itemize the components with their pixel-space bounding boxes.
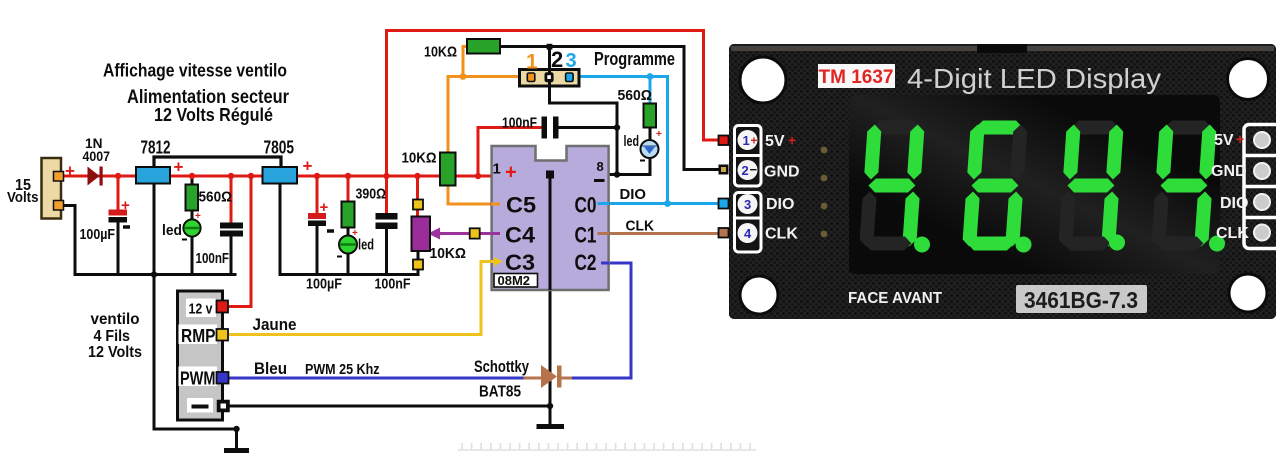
svg-text:100nF: 100nF <box>375 276 411 293</box>
svg-text:+: + <box>174 158 184 177</box>
wire: IC internal 0V vertical (over IC body) <box>549 175 552 290</box>
right silk label 5V+ <box>1214 131 1244 149</box>
wire: red stub to 100nF cap 1 <box>230 176 233 223</box>
svg-text:FACE AVANT: FACE AVANT <box>848 290 942 307</box>
wire: led 3 cathode down <box>649 157 652 175</box>
wire: 7812 ground pin down to bottom ground run <box>154 184 237 429</box>
svg-text:Jaune: Jaune <box>253 316 297 334</box>
svg-text:led: led <box>624 134 640 150</box>
svg-text:560Ω: 560Ω <box>199 190 233 206</box>
svg-text:TM 1637: TM 1637 <box>819 67 894 88</box>
wire: red stub to 100uF cap 1 <box>117 176 120 211</box>
led LED2 green <box>337 228 358 257</box>
node: cyan DIO junction <box>664 200 671 207</box>
regulator U1 7812 <box>136 167 170 184</box>
capacitor C3 100uF <box>308 213 334 231</box>
IC U3 PICAXE 08M2 <box>492 146 609 290</box>
wire: bridge over 7812 and 7805 tops <box>154 157 281 167</box>
svg-text:Schottky: Schottky <box>474 358 530 376</box>
wire: red feed to fan 12v pin <box>229 176 251 307</box>
ruler at bottom <box>458 443 756 450</box>
wire: 560R resistor 2 to led 3 <box>649 127 652 141</box>
display sheen <box>0 0 1 1</box>
diode D2 schottky BAT85 <box>541 365 562 388</box>
wire: cyan stub from C0 <box>598 202 610 205</box>
wire: 7805 ground pin to ground rail 2 <box>280 184 418 275</box>
node: cap3 tee <box>614 124 620 130</box>
svg-text:DIO: DIO <box>620 186 647 203</box>
wire: brown schottky left stub <box>525 377 541 380</box>
svg-text:390Ω: 390Ω <box>356 187 387 203</box>
text layer <box>7 44 675 401</box>
svg-text:10KΩ: 10KΩ <box>430 245 467 262</box>
svg-text:1: 1 <box>743 133 750 148</box>
right connector frame <box>1244 125 1280 249</box>
wire: 100uF cap 2 to ground rail 2 <box>316 226 319 275</box>
svg-text:7812: 7812 <box>141 138 171 158</box>
wire: header pin2 down to 0V node <box>550 85 618 175</box>
svg-text:+: + <box>65 162 75 181</box>
svg-text:1: 1 <box>493 161 501 178</box>
svg-text:4-Digit LED Display: 4-Digit LED Display <box>907 63 1161 94</box>
svg-text:−: − <box>750 162 758 177</box>
wire: blue PWM row from fan to schottky <box>229 377 525 380</box>
wire: red top line to display 5V pin <box>387 31 719 141</box>
decimal point 1 <box>914 237 930 253</box>
led LED1 green <box>182 211 201 240</box>
left connector pin 3 circle <box>738 194 758 214</box>
left connector pin 1 circle <box>738 130 758 150</box>
svg-text:5V: 5V <box>1214 132 1234 149</box>
decimal point 4 <box>1209 236 1225 252</box>
wire: 560R resistor 1 to led 1 <box>191 210 194 221</box>
left connector pin 2 circle <box>738 160 758 180</box>
wire: blue schottky to IC C2 <box>574 263 632 378</box>
svg-text:C3: C3 <box>505 250 535 275</box>
wire: orange stub into C5 <box>491 203 500 206</box>
mounting hole top-right <box>1228 59 1269 100</box>
display bezel <box>849 95 1220 274</box>
svg-text:4 Fils: 4 Fils <box>94 328 131 345</box>
fan pad minus black <box>218 401 230 412</box>
svg-text:+: + <box>656 129 662 140</box>
svg-text:led: led <box>358 237 374 254</box>
7-segment digit 4 : "4" <box>1151 121 1217 251</box>
capacitor C5 100nF <box>542 117 559 139</box>
fan pad 12v red <box>217 301 229 313</box>
led LED3 blue <box>640 129 662 161</box>
decimal point 2 <box>1016 237 1032 253</box>
wire: red branch to 100nF cap 3 <box>478 128 542 177</box>
IC 0V square node <box>546 171 554 179</box>
node: 7812 gnd on rail <box>151 271 157 277</box>
pad on C4 wiper wire <box>470 228 480 238</box>
ground symbol 2 <box>539 424 562 429</box>
svg-text:4007: 4007 <box>83 149 111 164</box>
resistor R5 560R <box>644 104 657 128</box>
svg-text:12 Volts Régulé: 12 Volts Régulé <box>154 104 273 125</box>
wire: red vertical top feed and 100nF cap 2 stub <box>385 31 388 214</box>
programming header J1 <box>520 70 580 87</box>
svg-text:2: 2 <box>551 47 563 72</box>
capacitor C2 100nF <box>220 223 243 237</box>
regulator U2 7805 <box>263 167 298 184</box>
svg-text:ventilo: ventilo <box>91 311 140 328</box>
purple arrowhead at potentiometer <box>428 228 440 240</box>
svg-text:100µF: 100µF <box>80 226 116 243</box>
svg-text:+: + <box>505 162 517 184</box>
svg-text:12 Volts: 12 Volts <box>88 344 142 361</box>
IC minus mark <box>594 179 605 182</box>
7-segment digit 1 : "4" <box>859 121 925 251</box>
wire: 390R resistor to led 2 <box>347 227 350 237</box>
wire: led 2 cathode to ground rail 2 <box>347 252 350 275</box>
wire: red stub to potentiometer <box>416 176 419 217</box>
svg-text:led: led <box>162 222 182 239</box>
node: cyan 560R tap <box>647 73 654 80</box>
svg-text:3: 3 <box>744 197 751 212</box>
display pad 5V red <box>719 136 729 146</box>
wire: cyan header pin3 to DIO net <box>573 77 668 204</box>
node: orange junction <box>460 73 467 80</box>
wire: yellow arrow into C3 (over IC edge) <box>481 257 503 266</box>
resistor R3 10K vertical <box>440 153 456 186</box>
right connector hole circles <box>1254 132 1270 241</box>
fan pad RMP yellow <box>217 329 229 341</box>
svg-text:CLK: CLK <box>1216 225 1249 242</box>
7-segment digit 2 : "6" <box>962 121 1028 251</box>
svg-text:4: 4 <box>744 226 752 241</box>
wire: red stub to 100uF cap 2 <box>316 176 319 214</box>
wire: +V rail 15V to IC pin1 <box>64 175 491 178</box>
wire: 100uF cap 1 to ground rail <box>117 221 120 275</box>
svg-text:CLK: CLK <box>626 218 655 235</box>
svg-text:GND: GND <box>764 164 800 181</box>
svg-text:3: 3 <box>566 50 577 72</box>
node: bottom ground junction <box>233 426 239 432</box>
svg-text:BAT85: BAT85 <box>479 384 521 401</box>
svg-text:Affichage vitesse ventilo: Affichage vitesse ventilo <box>103 60 287 81</box>
svg-text:RMP: RMP <box>181 325 216 346</box>
svg-text:560Ω: 560Ω <box>618 88 653 104</box>
mounting hole bottom-left <box>740 276 778 314</box>
node: pin8 tee <box>614 171 620 177</box>
svg-text:C5: C5 <box>506 193 536 218</box>
svg-text:C2: C2 <box>575 250 597 275</box>
svg-text:+: + <box>121 197 130 214</box>
node: square at top black net and pin2 <box>547 44 553 50</box>
svg-text:PWM: PWM <box>180 368 216 389</box>
wire: header pin2 up to top black net <box>548 47 551 72</box>
node: 0V and fan minus junction <box>547 403 553 409</box>
capacitor C4 100nF <box>376 213 398 229</box>
ground symbol 1 <box>227 448 247 453</box>
left connector frame lower (pins 3-4) <box>735 193 762 253</box>
mounting hole bottom-right <box>1229 274 1267 312</box>
resistor R1 560R <box>186 185 199 211</box>
svg-text:C4: C4 <box>505 223 536 248</box>
left connector frame upper (pins 1-2) <box>735 126 762 187</box>
wire: 100nF cap 3 right plate to 0V vertical <box>559 126 617 129</box>
display pad CLK brown <box>719 228 729 238</box>
components layer <box>42 39 757 450</box>
svg-text:12 v: 12 v <box>189 301 214 318</box>
wire: orange net header pin1 branch <box>448 77 526 154</box>
wire: 100nF cap 2 to ground rail 2 <box>385 229 388 275</box>
svg-text:100µF: 100µF <box>306 276 342 293</box>
svg-text:5V: 5V <box>765 133 785 150</box>
08M2 sub-label box <box>494 273 538 288</box>
svg-text:DIO: DIO <box>766 196 794 213</box>
wire: blue stub from C2 <box>601 262 609 265</box>
svg-text:C1: C1 <box>575 223 597 248</box>
left connector pin 4 circle <box>738 223 758 243</box>
svg-text:DIO: DIO <box>1220 195 1248 212</box>
diode D1 1N4007 <box>88 167 103 186</box>
svg-text:Volts: Volts <box>7 189 39 206</box>
svg-text:Bleu: Bleu <box>254 360 287 378</box>
svg-text:+: + <box>303 157 313 176</box>
svg-text:100nF: 100nF <box>196 251 230 267</box>
svg-text:8: 8 <box>597 159 604 174</box>
wire: black stub rail to 560R resistor 1 <box>191 176 194 186</box>
wire: 15V minus terminal to ground rail 1 <box>62 206 235 275</box>
wire: orange 10K vertical resistor to IC C5 <box>448 185 491 204</box>
wire: led 1 cathode to ground rail <box>191 236 194 275</box>
wire: purple stub into C4 <box>491 232 500 235</box>
decimal point 3 <box>1109 235 1125 251</box>
mounting hole top-left <box>740 57 786 103</box>
fan connector box <box>178 291 223 420</box>
svg-text:7805: 7805 <box>264 138 295 158</box>
wire: potentiometer bottom to ground rail 2 <box>417 251 420 275</box>
wire: orange up to 10K horizontal resistor <box>463 47 467 77</box>
15V source connector <box>42 158 64 219</box>
svg-text:C0: C0 <box>575 193 597 218</box>
wire: purple IC C4 to potentiometer wiper <box>436 232 491 235</box>
display pad DIO cyan <box>719 199 729 209</box>
junction dots <box>115 173 481 179</box>
wire: fan minus pin to ground node <box>229 405 550 408</box>
svg-text:PWM 25 Khz: PWM 25 Khz <box>305 361 380 378</box>
wire: ground stub 1 <box>235 429 238 449</box>
wire: 100nF cap 1 to ground rail <box>230 236 233 275</box>
svg-text:GND: GND <box>1211 163 1247 180</box>
resistor R2 390R <box>342 202 355 228</box>
capacitor C1 100uF <box>109 210 131 228</box>
svg-text:100nF: 100nF <box>502 116 537 132</box>
wire: brown schottky right stub <box>561 377 574 380</box>
solder pads left of bezel <box>821 147 828 238</box>
svg-text:+: + <box>1236 131 1244 147</box>
wire: IC pin8 row to led 3 bottom <box>609 173 650 176</box>
7-segment digit 3 : "4" <box>1058 121 1124 251</box>
wire: yellow RMP to IC C3 <box>229 262 492 335</box>
left silk label 5V+ <box>765 132 796 150</box>
wire: IC 0V down to ground 2 <box>549 175 552 424</box>
wire: brown stub from C1 <box>598 232 610 235</box>
svg-text:CLK: CLK <box>765 226 798 243</box>
svg-text:+: + <box>788 132 796 148</box>
wire: DIO row IC C0 to display pin3 <box>609 202 718 205</box>
svg-text:+: + <box>195 211 201 222</box>
wire: cyan stub to 560R resistor 2 <box>649 77 652 105</box>
svg-text:10KΩ: 10KΩ <box>402 150 437 167</box>
svg-text:+: + <box>320 199 329 216</box>
display module PCB board <box>729 44 1276 319</box>
svg-text:+: + <box>751 134 758 148</box>
fan pad PWM blue <box>217 372 229 384</box>
svg-text:2: 2 <box>742 163 749 178</box>
svg-text:Programme: Programme <box>594 48 675 69</box>
svg-text:1: 1 <box>526 51 538 74</box>
svg-text:10KΩ: 10KΩ <box>424 44 457 61</box>
svg-text:3461BG-7.3: 3461BG-7.3 <box>1024 287 1138 313</box>
resistor R4 10K horizontal <box>467 39 500 54</box>
potentiometer P1 10K <box>412 200 431 270</box>
TM 1637 label <box>818 64 895 88</box>
wire: red stub to 390R resistor <box>347 176 350 202</box>
wire: CLK row IC C1 to display pin4 <box>609 232 718 235</box>
display pad GND black <box>719 165 729 175</box>
3461BG-7.3 label <box>1016 285 1147 313</box>
svg-text:08M2: 08M2 <box>498 273 531 288</box>
wire: top black net 10K to display GND pin <box>500 47 718 170</box>
